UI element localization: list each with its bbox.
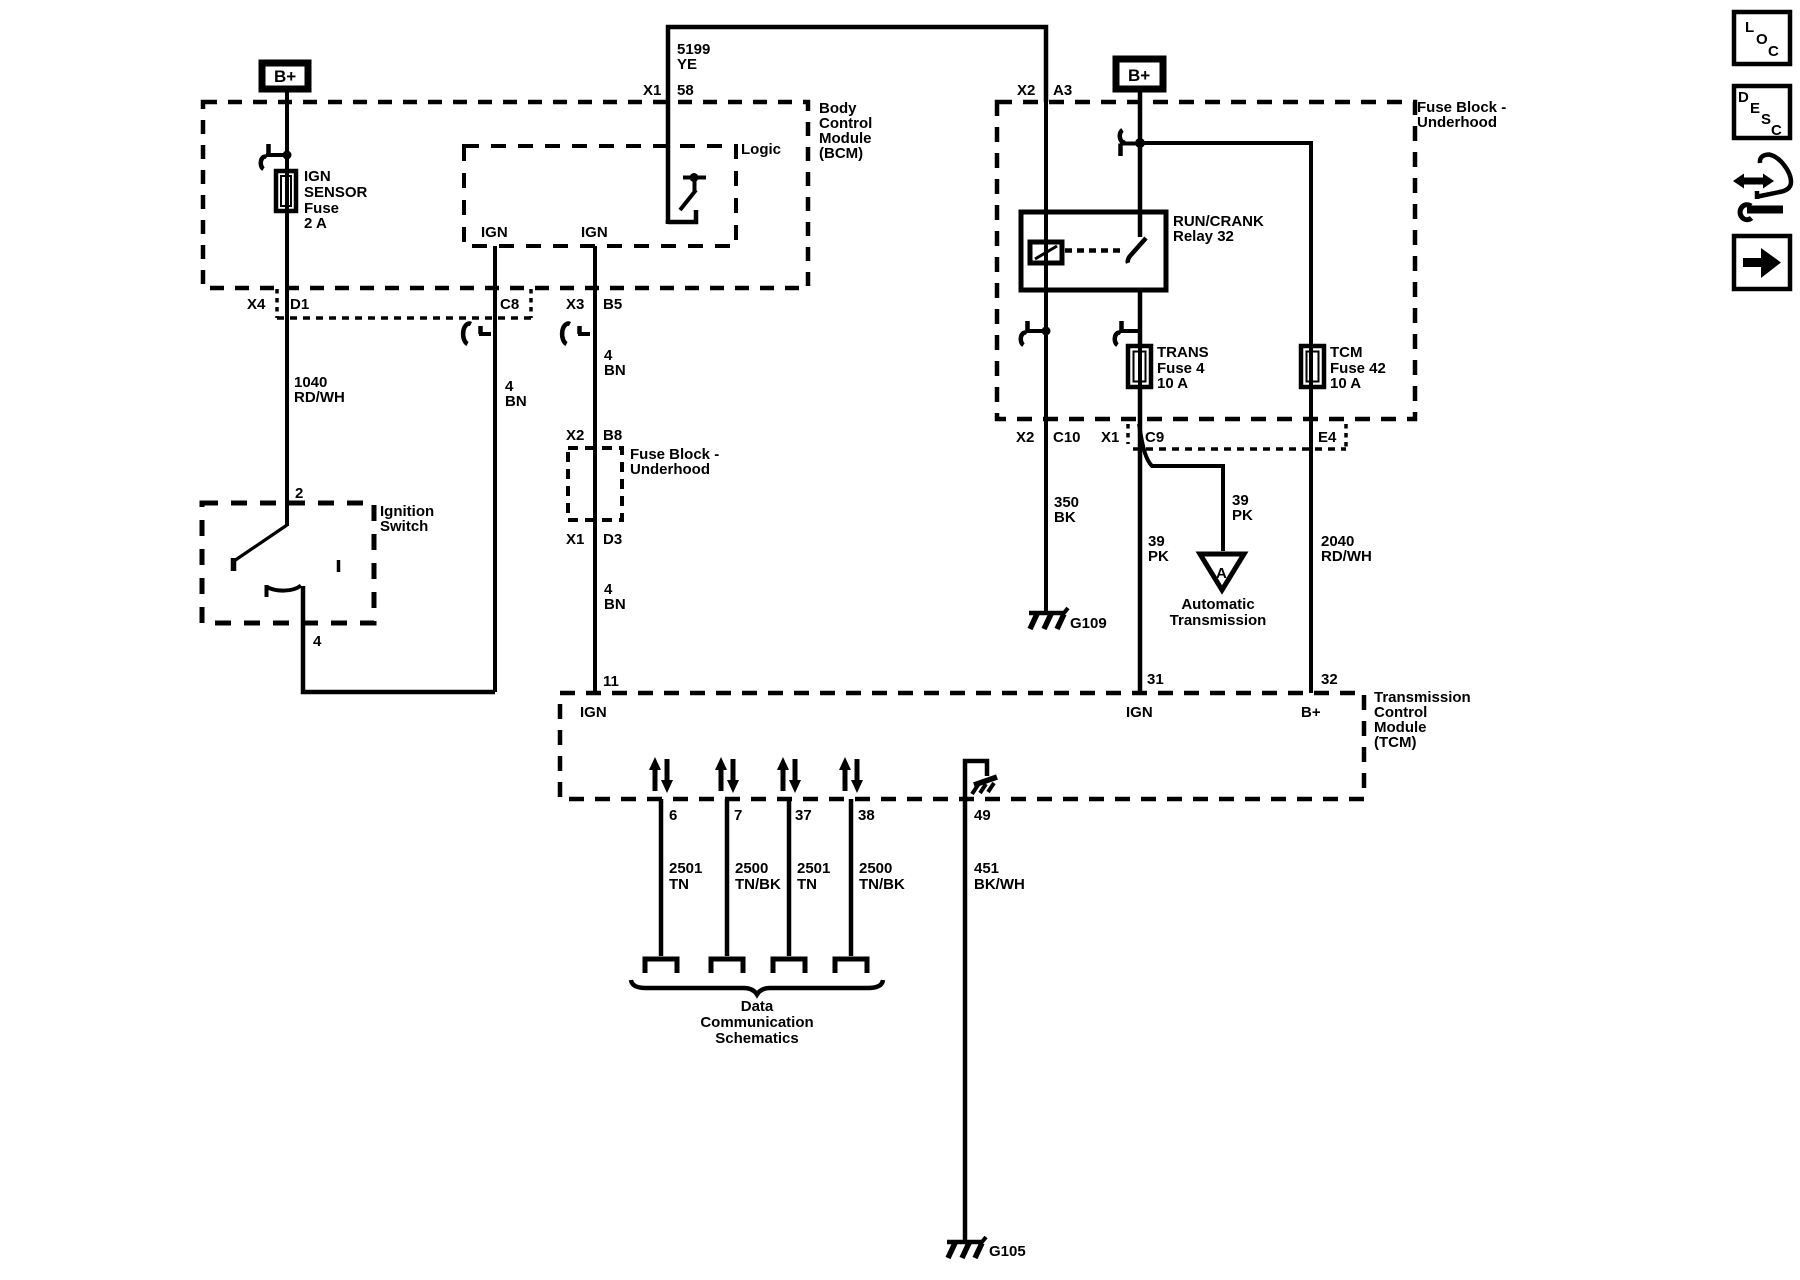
Logic box inside BCM xyxy=(464,146,736,246)
svg-text:Underhood: Underhood xyxy=(630,461,710,478)
relay actuating dashed link xyxy=(1065,248,1125,253)
svg-text:B5: B5 xyxy=(603,296,622,313)
svg-text:IGN: IGN xyxy=(304,168,331,185)
off-page connector 3 xyxy=(773,959,805,973)
label wire 39 PK (branch) xyxy=(1232,492,1253,524)
svg-text:BK: BK xyxy=(1054,509,1076,526)
svg-text:TCM: TCM xyxy=(1330,344,1363,361)
svg-text:B+: B+ xyxy=(274,67,296,86)
icon LOC box xyxy=(1734,12,1790,64)
icon wrench arrow xyxy=(1740,205,1783,220)
svg-text:S: S xyxy=(1761,111,1771,128)
pin 32 label xyxy=(1321,671,1338,688)
svg-text:BN: BN xyxy=(505,393,527,410)
pin 49 label xyxy=(974,807,991,824)
wire coil circuit X2-A3 down to G109 xyxy=(1044,102,1048,613)
ignition switch contacts xyxy=(234,525,339,597)
clip below C8 xyxy=(463,324,491,344)
svg-text:C: C xyxy=(1768,43,1779,60)
label wire 350 BK xyxy=(1054,494,1079,526)
label Body Control Module (BCM) xyxy=(819,100,872,162)
svg-text:(BCM): (BCM) xyxy=(819,145,863,162)
svg-text:38: 38 xyxy=(858,807,875,824)
wire C8 down 4 BN xyxy=(493,246,497,692)
svg-text:BN: BN xyxy=(604,596,626,613)
label wire 5199 YE xyxy=(677,41,710,73)
label wire 4 BN (C8) xyxy=(505,378,527,410)
wire top 5199 YE from BCM X1-58 to fuse block X2-A3 xyxy=(668,27,1046,224)
svg-text:Switch: Switch xyxy=(380,518,428,535)
wire X3 B5 down 4 BN xyxy=(593,246,597,693)
svg-text:E: E xyxy=(1750,100,1760,117)
BCM outline box xyxy=(203,102,808,288)
wire branch C9 to automatic transmission xyxy=(1139,424,1223,551)
pin 31 label xyxy=(1147,671,1164,688)
connector X4 D1 labels xyxy=(247,296,309,313)
relay coil xyxy=(1030,242,1062,263)
pin 6 label xyxy=(669,807,677,824)
svg-text:(TCM): (TCM) xyxy=(1374,734,1416,751)
svg-text:49: 49 xyxy=(974,807,991,824)
pin 38 label xyxy=(858,807,875,824)
pin 37 label xyxy=(795,807,812,824)
svg-text:X3: X3 xyxy=(566,296,584,313)
svg-text:TN: TN xyxy=(669,876,689,893)
svg-text:TN/BK: TN/BK xyxy=(735,876,781,893)
connector E4 label xyxy=(1318,429,1337,446)
wire data bus 38 xyxy=(849,799,854,956)
relay switch arm xyxy=(1128,238,1146,263)
node IGN TCM left xyxy=(580,704,607,721)
connector X3 B5 labels xyxy=(566,296,622,313)
svg-text:X2: X2 xyxy=(566,427,584,444)
svg-text:X2: X2 xyxy=(1017,82,1035,99)
label wire 39 PK (main) xyxy=(1148,533,1169,565)
svg-text:10 A: 10 A xyxy=(1330,375,1361,392)
svg-text:451: 451 xyxy=(974,860,999,877)
svg-text:X2: X2 xyxy=(1016,429,1034,446)
fuse IGN SENSOR 2 A xyxy=(276,171,296,211)
label TCM Fuse 42 10 A xyxy=(1330,344,1386,392)
svg-text:E4: E4 xyxy=(1318,429,1337,446)
svg-text:B8: B8 xyxy=(603,427,622,444)
svg-text:BK/WH: BK/WH xyxy=(974,876,1025,893)
label Fuse Block - Underhood right xyxy=(1417,99,1506,131)
internal ground symbol TCM pin 49 xyxy=(965,761,997,799)
svg-text:Underhood: Underhood xyxy=(1417,114,1497,131)
svg-text:2 A: 2 A xyxy=(304,215,327,232)
svg-text:TN: TN xyxy=(797,876,817,893)
svg-text:B+: B+ xyxy=(1301,704,1321,721)
svg-text:2: 2 xyxy=(295,485,303,502)
node IGN TCM right xyxy=(1126,704,1153,721)
svg-text:2500: 2500 xyxy=(859,860,892,877)
connector X1 D3 labels xyxy=(566,531,622,548)
svg-text:X1: X1 xyxy=(643,82,661,99)
svg-text:D3: D3 xyxy=(603,531,622,548)
connector X2 B8 labels xyxy=(566,427,622,444)
TCM outline box xyxy=(560,693,1364,799)
svg-text:A: A xyxy=(1216,565,1227,582)
svg-text:G109: G109 xyxy=(1070,615,1107,632)
switch inside Logic box xyxy=(668,173,706,224)
wire B+ down to relay switch xyxy=(1138,92,1143,237)
svg-text:Automatic: Automatic xyxy=(1181,596,1254,613)
svg-text:7: 7 xyxy=(734,807,742,824)
Fuse Block Underhood box right xyxy=(997,102,1415,419)
battery B+ terminal right xyxy=(1116,59,1163,89)
svg-text:IGN: IGN xyxy=(580,704,607,721)
svg-text:58: 58 xyxy=(677,82,694,99)
off-page connector 1 xyxy=(645,959,677,973)
svg-text:X1: X1 xyxy=(566,531,584,548)
label wire 4 BN lower xyxy=(604,581,626,613)
svg-text:YE: YE xyxy=(677,56,697,73)
svg-text:C9: C9 xyxy=(1145,429,1164,446)
pin X1 58 xyxy=(643,82,694,99)
label wire 1040 RD/WH xyxy=(294,374,345,406)
off-page connector 2 xyxy=(711,959,743,973)
svg-text:2501: 2501 xyxy=(669,860,702,877)
label TRANS Fuse 4 10 A xyxy=(1157,344,1209,392)
connector X2 C10 labels xyxy=(1016,429,1081,446)
svg-text:X4: X4 xyxy=(247,296,266,313)
svg-text:IGN: IGN xyxy=(1126,704,1153,721)
svg-text:B+: B+ xyxy=(1128,66,1150,85)
data arrows pair 2 xyxy=(715,757,739,793)
pin X2 A3 labels xyxy=(1017,82,1072,99)
label wire 2500 TN/BK (pin38) xyxy=(859,860,905,893)
connector dotted box C9-E4 xyxy=(1128,424,1346,449)
automatic transmission triangle A xyxy=(1200,554,1244,590)
icon forward arrow box xyxy=(1734,236,1790,289)
connector dotted box X4-C8 xyxy=(277,289,531,318)
svg-text:RD/WH: RD/WH xyxy=(294,389,345,406)
svg-text:C10: C10 xyxy=(1053,429,1081,446)
clip at TRANS fuse xyxy=(1115,321,1140,345)
clip below X3 B5 xyxy=(562,324,590,344)
pin 11 label xyxy=(603,673,619,690)
svg-text:Logic: Logic xyxy=(741,141,781,158)
svg-text:X1: X1 xyxy=(1101,429,1119,446)
svg-text:PK: PK xyxy=(1148,548,1169,565)
node B+ TCM xyxy=(1301,704,1321,721)
wire data bus 37 xyxy=(787,799,792,956)
connector C8 label xyxy=(500,296,519,313)
off-page connector 4 xyxy=(835,959,867,973)
wire data bus 7 xyxy=(725,799,730,956)
ground G109 xyxy=(1029,608,1107,632)
relay RUN/CRANK Relay 32 xyxy=(1021,212,1166,290)
svg-text:L: L xyxy=(1745,19,1754,36)
wire 451 BK/WH to G105 xyxy=(963,799,968,1242)
label Data Communication Schematics xyxy=(700,998,813,1047)
pin 2 label xyxy=(295,485,303,502)
brace data communication xyxy=(631,980,883,995)
fuse TCM Fuse 42 10 A xyxy=(1301,346,1324,387)
svg-text:D1: D1 xyxy=(290,296,309,313)
label wire 2501 TN (pin6) xyxy=(669,860,702,893)
svg-text:C: C xyxy=(1771,122,1782,139)
svg-text:10 A: 10 A xyxy=(1157,375,1188,392)
pin 7 label xyxy=(734,807,742,824)
icon double arrow with hook xyxy=(1733,155,1791,200)
svg-text:SENSOR: SENSOR xyxy=(304,184,368,201)
svg-text:BN: BN xyxy=(604,362,626,379)
svg-text:Schematics: Schematics xyxy=(715,1030,798,1047)
label wire 2040 RD/WH xyxy=(1321,533,1372,565)
label Logic xyxy=(741,141,781,158)
svg-text:IGN: IGN xyxy=(581,224,608,241)
svg-text:6: 6 xyxy=(669,807,677,824)
svg-text:32: 32 xyxy=(1321,671,1338,688)
pin 4 label xyxy=(313,633,322,650)
wire branch to TCM fuse 42 xyxy=(1140,143,1311,693)
wire B+ to ignition switch 1040 RD/WH xyxy=(285,92,289,526)
label wire 451 BK/WH xyxy=(974,860,1025,893)
data arrows pair 1 xyxy=(649,757,673,793)
clip at B+ junction xyxy=(1120,130,1140,156)
svg-text:2500: 2500 xyxy=(735,860,768,877)
connector X1 C9 labels xyxy=(1101,429,1164,446)
svg-text:Transmission: Transmission xyxy=(1170,612,1267,629)
svg-text:11: 11 xyxy=(603,673,619,690)
svg-text:A3: A3 xyxy=(1053,82,1072,99)
svg-text:37: 37 xyxy=(795,807,812,824)
icon DESC box xyxy=(1734,86,1790,139)
svg-text:C8: C8 xyxy=(500,296,519,313)
label IGN SENSOR Fuse 2 A xyxy=(304,168,368,232)
label wire 2501 TN (pin37) xyxy=(797,860,830,893)
label Fuse Block - Underhood center xyxy=(630,446,719,478)
svg-text:G105: G105 xyxy=(989,1243,1026,1260)
svg-text:RD/WH: RD/WH xyxy=(1321,548,1372,565)
fuse TRANS Fuse 4 10 A xyxy=(1128,346,1151,387)
svg-text:Relay 32: Relay 32 xyxy=(1173,228,1234,245)
svg-text:TN/BK: TN/BK xyxy=(859,876,905,893)
wire relay output down to TCM pin 31 xyxy=(1138,290,1143,693)
label wire 4 BN upper xyxy=(604,347,626,379)
svg-text:O: O xyxy=(1756,31,1768,48)
label wire 2500 TN/BK (pin7) xyxy=(735,860,781,893)
junction + clip on coil ground wire xyxy=(1021,321,1051,345)
ground G105 xyxy=(947,1237,1026,1260)
junction node at B+ branch xyxy=(1135,138,1145,148)
label RUN/CRANK Relay 32 xyxy=(1173,213,1264,245)
node IGN left at Logic box xyxy=(481,224,508,241)
svg-text:Communication: Communication xyxy=(700,1014,813,1031)
svg-text:4: 4 xyxy=(313,633,322,650)
data arrows pair 4 xyxy=(839,757,863,793)
battery B+ terminal left xyxy=(262,63,308,89)
label Automatic Transmission xyxy=(1170,596,1267,629)
wire data bus 6 xyxy=(659,799,664,956)
fuse block underhood small box xyxy=(568,448,622,520)
data arrows pair 3 xyxy=(777,757,801,793)
label Ignition Switch xyxy=(380,503,434,535)
svg-text:D: D xyxy=(1738,89,1749,106)
svg-text:IGN: IGN xyxy=(481,224,508,241)
svg-text:PK: PK xyxy=(1232,507,1253,524)
svg-text:2501: 2501 xyxy=(797,860,830,877)
svg-text:31: 31 xyxy=(1147,671,1164,688)
wire ignition switch to C8 wire xyxy=(303,586,495,692)
label Transmission Control Module (TCM) xyxy=(1374,689,1471,751)
node IGN right at Logic box xyxy=(581,224,608,241)
svg-text:Data: Data xyxy=(741,998,774,1015)
clip at IGN SENSOR fuse xyxy=(261,144,292,169)
svg-text:TRANS: TRANS xyxy=(1157,344,1209,361)
Ignition Switch box xyxy=(202,503,374,623)
